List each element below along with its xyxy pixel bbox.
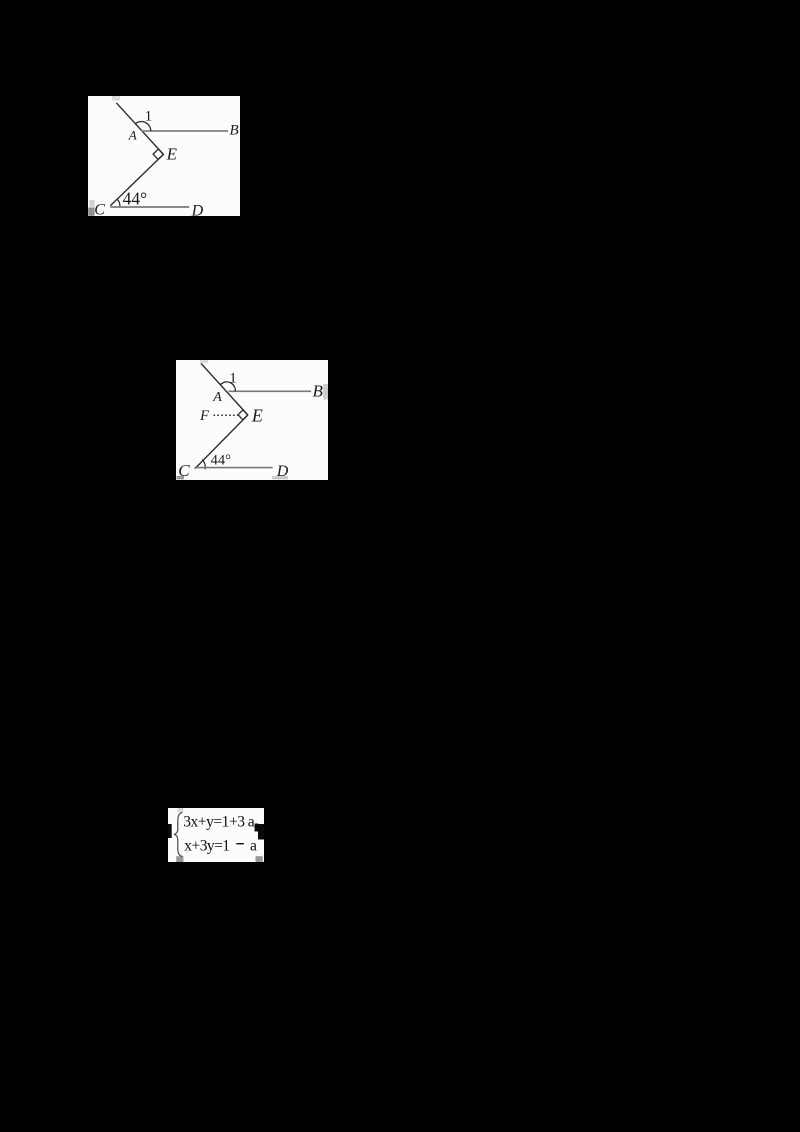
- selection handle bottom-right: [256, 856, 263, 862]
- curly brace: [174, 812, 182, 856]
- svg-text:a: a: [250, 837, 257, 854]
- dotted line F to E: [214, 414, 239, 416]
- svg-text:A: A: [212, 390, 222, 405]
- selection handle top: [112, 96, 120, 101]
- figure 3: equation system: [168, 808, 264, 862]
- svg-text:a: a: [248, 813, 255, 830]
- wire: line E to C: [195, 415, 248, 469]
- selection handle bottom-left dark: [88, 208, 94, 216]
- svg-text:C: C: [178, 461, 190, 480]
- selection handle bottom-left: [176, 856, 183, 862]
- right-angle diamond at E: [153, 149, 163, 159]
- wire: ray AB: [142, 130, 229, 132]
- selection handle right: [323, 384, 328, 400]
- svg-text:1: 1: [229, 370, 237, 386]
- svg-text:C: C: [94, 201, 105, 216]
- cursor mark right: [258, 824, 264, 840]
- selection handle bottom-left: [177, 476, 185, 479]
- wire: line E to C: [110, 154, 163, 205]
- svg-text:E: E: [251, 406, 263, 426]
- arc angle 1 at A: [135, 122, 151, 131]
- wire: line through A to E: [116, 103, 163, 155]
- svg-text:44°: 44°: [211, 452, 232, 468]
- wire: ray CD: [110, 206, 189, 208]
- arc 44 deg at C: [202, 459, 205, 469]
- svg-text:D: D: [191, 203, 204, 216]
- svg-text:D: D: [276, 463, 289, 480]
- cursor mark left: [168, 824, 172, 838]
- svg-text:B: B: [230, 123, 239, 139]
- svg-text:x+3y=1: x+3y=1: [184, 837, 229, 854]
- wire: line through A to E: [201, 363, 248, 415]
- wire: ray CD: [195, 467, 273, 469]
- svg-text:B: B: [313, 382, 324, 401]
- arc 44 deg at C: [117, 199, 120, 207]
- svg-text:44°: 44°: [123, 189, 148, 209]
- svg-text:F: F: [199, 408, 210, 424]
- svg-text:A: A: [128, 128, 137, 143]
- subscript mark after a: [255, 824, 259, 832]
- selection handle top: [200, 360, 208, 363]
- selection handle bottom-left light: [89, 200, 94, 208]
- right-angle diamond at E: [238, 410, 248, 420]
- selection handle top-left: [178, 808, 184, 812]
- figure 2: angle diagram ABCDEF: [176, 360, 328, 480]
- svg-text:E: E: [166, 145, 178, 164]
- arc angle 1 at A: [221, 382, 236, 391]
- figure 1: angle diagram ABCDE: [88, 96, 240, 216]
- svg-text:3x+y=1+3: 3x+y=1+3: [183, 813, 245, 830]
- selection handle bottom-mid: [272, 476, 288, 479]
- svg-text:1: 1: [145, 108, 153, 124]
- wire: ray AB: [229, 390, 312, 392]
